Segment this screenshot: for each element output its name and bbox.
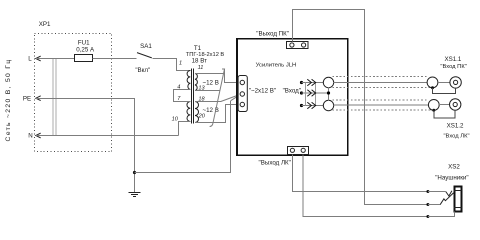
- svg-text:"Вкл": "Вкл": [135, 67, 150, 74]
- wire pair inside XP1: [52, 59, 54, 136]
- wire pin10 to N: [179, 122, 191, 136]
- svg-text:"Вход": "Вход": [283, 88, 301, 95]
- power connector ~2x12 В on amplifier: [238, 76, 247, 112]
- chevron contacts line 1: [307, 79, 315, 86]
- svg-text:XS1.2: XS1.2: [447, 122, 464, 129]
- wire L to fuse: [36, 58, 74, 60]
- ground symbol: [129, 192, 141, 194]
- wire 4-7 jumper: [174, 90, 191, 102]
- T1 primary winding 7-10: [187, 102, 190, 122]
- svg-text:"~2х12 В": "~2х12 В": [249, 88, 276, 95]
- svg-text:1: 1: [179, 60, 182, 66]
- wire pin11 to power connector: [195, 69, 240, 83]
- jack contact 2 (ring spring): [426, 203, 429, 206]
- junction on plug link: [327, 91, 330, 94]
- wire pin13 (diagonal): [195, 90, 219, 92]
- RCA plug circle (left channel): [323, 100, 333, 110]
- svg-text:FU1: FU1: [78, 39, 90, 46]
- shield junction XS1.1: [431, 86, 434, 89]
- wire pin18 to power connector: [195, 101, 221, 103]
- screen dashed lines channel 2: [332, 99, 428, 101]
- T1 primary winding 1-4: [187, 71, 190, 90]
- svg-text:N: N: [28, 133, 32, 140]
- amplifier box (Усилитель JLH): [237, 39, 348, 156]
- svg-text:"Наушники": "Наушники": [435, 174, 468, 181]
- svg-text:18 Вт: 18 Вт: [192, 57, 208, 64]
- T1 secondary winding 11-13: [195, 74, 197, 91]
- svg-text:"Выход ЛК": "Выход ЛК": [259, 159, 291, 166]
- chevron contacts line 3: [307, 102, 315, 109]
- T1 secondary winding 18-20: [195, 102, 199, 123]
- wire signal to XS1.1: [334, 82, 427, 84]
- wire input line 2: [302, 92, 329, 94]
- svg-text:XS2: XS2: [448, 164, 460, 171]
- svg-text:PE: PE: [23, 95, 31, 102]
- svg-text:10: 10: [172, 116, 179, 122]
- svg-text:0,25 А: 0,25 А: [76, 46, 95, 53]
- svg-text:20: 20: [198, 113, 206, 119]
- shield wire XS1.1: [433, 88, 456, 94]
- svg-text:SA1: SA1: [140, 43, 152, 50]
- wire input line 1: [302, 82, 324, 84]
- transformer T1 core: [191, 69, 193, 124]
- shield wire XS1.2: [434, 110, 455, 118]
- wire N from XP1: [36, 135, 179, 137]
- svg-text:XS1.1: XS1.1: [444, 56, 461, 63]
- svg-text:L: L: [28, 56, 32, 63]
- chevron contacts line 2: [307, 90, 315, 97]
- wire fuse to SA1: [93, 58, 137, 60]
- svg-text:~12 В: ~12 В: [203, 80, 219, 87]
- wire PE to amplifier chassis: [135, 101, 231, 173]
- screen dashed lines channel 1: [332, 76, 427, 78]
- connector frame lines: [305, 83, 307, 106]
- svg-text:Сеть ~220 В, 50 Гц: Сеть ~220 В, 50 Гц: [5, 59, 12, 142]
- svg-text:Усилитель JLH: Усилитель JLH: [256, 62, 297, 68]
- jack contact 3 (sleeve): [426, 215, 429, 218]
- svg-text:"Вход ПК": "Вход ПК": [440, 64, 466, 70]
- wire signal to XS1.2: [334, 104, 429, 106]
- input terminals inside amplifier: [300, 81, 303, 84]
- jack contact 1 (tip spring): [426, 190, 429, 193]
- wire PE from XP1: [36, 99, 135, 193]
- wire Выход ПК to XS2 (top route): [293, 10, 428, 205]
- svg-text:11: 11: [198, 65, 204, 71]
- svg-text:"Вход ЛК": "Вход ЛК": [443, 133, 469, 139]
- connector XP1 dashed outline: [35, 34, 112, 152]
- wire Выход ЛК right pin to XS2: [303, 155, 428, 217]
- wire between plugs: [328, 88, 330, 101]
- wire pin20 to power connector: [195, 105, 240, 123]
- shield junction XS1.2: [432, 109, 435, 112]
- wire input line 3: [302, 105, 324, 107]
- svg-text:XP1: XP1: [39, 21, 51, 28]
- junction PE/chassis: [133, 171, 136, 174]
- wire SA1 to T1 pin 1: [153, 59, 191, 71]
- RCA plug circle (right channel): [323, 77, 333, 87]
- wire Выход ЛК left pin to XS2: [293, 155, 428, 192]
- svg-text:"Выход ПК": "Выход ПК": [256, 30, 289, 37]
